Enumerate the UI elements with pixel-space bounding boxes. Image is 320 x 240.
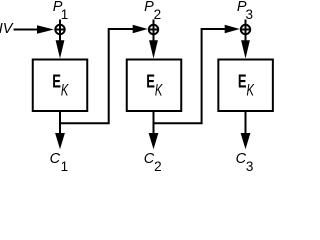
svg-text:P: P — [144, 0, 154, 15]
svg-text:K: K — [155, 81, 163, 100]
svg-text:1: 1 — [61, 7, 69, 22]
svg-text:3: 3 — [246, 7, 254, 22]
svg-text:K: K — [247, 81, 255, 100]
svg-text:1: 1 — [61, 159, 69, 172]
svg-text:E: E — [52, 71, 61, 91]
svg-text:3: 3 — [246, 159, 254, 172]
svg-text:IV: IV — [0, 21, 14, 37]
svg-text:2: 2 — [154, 159, 162, 172]
svg-text:K: K — [61, 81, 69, 100]
svg-text:2: 2 — [154, 7, 162, 22]
svg-text:E: E — [238, 71, 247, 91]
svg-text:E: E — [146, 71, 155, 91]
svg-text:C: C — [50, 151, 61, 167]
